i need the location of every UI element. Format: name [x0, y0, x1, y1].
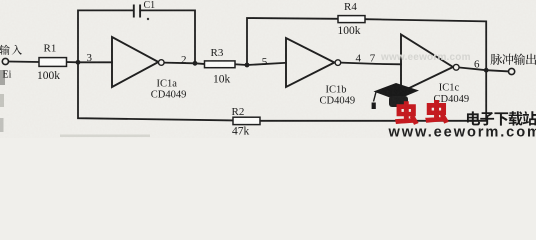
svg-text:4: 4 [356, 53, 362, 65]
svg-text:CD4049: CD4049 [320, 96, 356, 107]
watermark 电子下载站 [467, 111, 480, 125]
watermark cap tassel cord [374, 92, 377, 102]
paper grain [0, 0, 536, 138]
watermark cap tassel knot [372, 103, 376, 110]
svg-text:CD4049: CD4049 [151, 90, 187, 101]
svg-text:R2: R2 [232, 106, 245, 118]
label 输入 (input) [0, 45, 10, 55]
svg-text:R3: R3 [211, 47, 224, 59]
wire R1 to IC1a input through node 3 [67, 61, 113, 63]
node 6 junction [484, 68, 489, 73]
svg-text:IC1c: IC1c [439, 83, 460, 94]
svg-text:5: 5 [262, 56, 268, 68]
IC1c inverter bubble [453, 64, 459, 70]
svg-text:100k: 100k [37, 70, 60, 82]
wire top rail right of C1 down to node 2 [140, 10, 195, 63]
IC1a inverter bubble [159, 60, 165, 66]
watermark cap base [389, 96, 408, 107]
svg-text:R4: R4 [344, 1, 357, 13]
svg-text:Ei: Ei [3, 70, 12, 81]
resistor R1 body [39, 58, 67, 67]
IC1b inverter bubble [335, 60, 341, 66]
op-amp U1 IC1a triangle [112, 37, 158, 87]
resistor R4 body [338, 16, 365, 23]
svg-text:www.eeworm.com: www.eeworm.com [380, 52, 471, 63]
watermark graduation cap board [374, 83, 420, 100]
resistor R3 body [205, 61, 236, 68]
svg-text:6: 6 [474, 59, 480, 71]
wire IC1b output to IC1c input through node 7 [341, 63, 401, 65]
wire R4 branch: node5 up and right to R4 [247, 18, 338, 65]
scan smudge left edge [0, 70, 5, 85]
svg-text:IC1b: IC1b [326, 85, 347, 96]
wire C1 branch: node3 up, top rail left of C1 [78, 10, 134, 62]
input terminal Ei [2, 58, 8, 64]
wire IC1a output to R3 through node 2 [164, 63, 204, 64]
C1 scan fleck [147, 18, 149, 20]
watermark 虫 second (red) [426, 101, 448, 123]
svg-text:www.eeworm.com: www.eeworm.com [388, 125, 536, 138]
svg-text:47k: 47k [232, 125, 250, 137]
op-amp U2 IC1b triangle [286, 38, 334, 87]
svg-text:2: 2 [181, 54, 187, 66]
svg-text:7: 7 [370, 53, 376, 65]
wire R4 right to corner down to node 6 [365, 19, 486, 70]
label 脉冲输出 (pulse output) [491, 54, 503, 65]
wire bottom rail from R2 up to node 6 [260, 70, 486, 121]
background scan paper [0, 0, 536, 138]
op-amp U3 IC1c triangle [401, 35, 453, 93]
node 3 junction [76, 60, 81, 65]
node 2 junction [193, 61, 198, 66]
wire R3 to IC1b input through node 5 [235, 63, 286, 65]
capacitor C1 plates [134, 5, 140, 18]
wire R2 branch: node3 down, bottom rail to R2 [78, 62, 233, 120]
svg-text:100k: 100k [338, 25, 361, 37]
node 5 junction [245, 63, 250, 68]
svg-text:IC1a: IC1a [157, 79, 178, 90]
resistor R2 body [233, 117, 260, 124]
svg-text:R1: R1 [44, 43, 57, 55]
svg-text:10k: 10k [213, 74, 231, 86]
wire IC1c output to output terminal through node 6 [459, 68, 508, 72]
output terminal [509, 68, 515, 74]
svg-text:C1: C1 [144, 0, 156, 11]
watermark 虫 first (red) [396, 102, 418, 124]
wire input to R1 [9, 61, 40, 64]
svg-text:3: 3 [87, 52, 93, 64]
